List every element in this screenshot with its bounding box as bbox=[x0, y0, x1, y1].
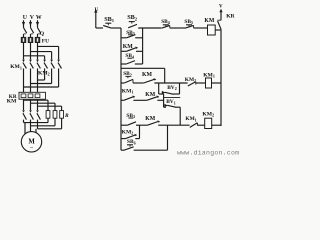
wire parallel-branch right vertical bbox=[142, 28, 144, 64]
svg-text:KM: KM bbox=[145, 92, 156, 98]
thermal relay contact KR bbox=[217, 14, 235, 30]
wire KM2 pole2 crossover bbox=[31, 68, 52, 83]
contactor KM main contacts bbox=[7, 99, 41, 120]
contact KM1 interlock NC bbox=[185, 116, 204, 127]
svg-text:BV1: BV1 bbox=[166, 99, 176, 105]
wire phase1 below KR bbox=[23, 99, 25, 110]
coil KM bbox=[204, 18, 221, 35]
svg-text:W: W bbox=[36, 15, 42, 21]
wire motor feeds bbox=[25, 123, 36, 135]
svg-text:SB4: SB4 bbox=[161, 19, 170, 25]
wire merge phase2 bbox=[31, 118, 56, 126]
pushbutton SB4 bbox=[161, 19, 185, 28]
svg-text:KM: KM bbox=[145, 116, 156, 122]
svg-text:Q: Q bbox=[40, 31, 45, 37]
svg-text:KM1: KM1 bbox=[10, 64, 22, 70]
contact KM2 interlock NC bbox=[185, 77, 206, 86]
pushbutton SB2 bbox=[127, 14, 138, 28]
contact KM NO rung C bbox=[145, 116, 189, 125]
wire tap W to KM2 pole3 bbox=[38, 46, 59, 59]
motor M bbox=[21, 132, 41, 152]
pushbutton SB2 NC contact bbox=[121, 71, 133, 83]
wire phase verticals to KM1 bbox=[24, 43, 38, 60]
coil KM2 bbox=[202, 112, 221, 129]
svg-text:SB5: SB5 bbox=[184, 19, 193, 25]
svg-text:FU: FU bbox=[42, 38, 49, 44]
wire phase2 below KR bbox=[30, 99, 32, 110]
supply terminal U bbox=[22, 15, 28, 27]
svg-text:KM: KM bbox=[7, 99, 17, 105]
supply terminal W bbox=[36, 15, 42, 27]
contact KM2 latch bbox=[121, 125, 140, 138]
fuse FU bbox=[21, 34, 49, 45]
supply terminal V bbox=[29, 15, 35, 27]
wire tap to resistor R3 bbox=[38, 106, 62, 110]
svg-text:BV2: BV2 bbox=[167, 85, 177, 91]
wire merge phase3 bbox=[38, 118, 62, 129]
wire tap to resistor R2 bbox=[31, 103, 56, 110]
contactor KM2 main contacts bbox=[38, 60, 62, 77]
svg-text:KM1: KM1 bbox=[122, 88, 134, 94]
svg-text:KM1: KM1 bbox=[185, 116, 196, 122]
svg-text:KM: KM bbox=[204, 18, 215, 24]
svg-text:KM2: KM2 bbox=[202, 112, 214, 118]
wire right bus bbox=[220, 29, 222, 126]
wire KM2 pole1 crossover bbox=[38, 68, 45, 80]
svg-text:~: ~ bbox=[30, 145, 33, 151]
coil KM1 bbox=[203, 73, 221, 88]
wire rail A bbox=[138, 27, 161, 29]
contactor KM1 main contacts bbox=[10, 60, 40, 71]
wire tap U to KM2 pole1 bbox=[24, 56, 45, 60]
resistor R bank bbox=[46, 111, 69, 119]
contact KM latch bbox=[121, 44, 143, 51]
pushbutton SB3 second contact bbox=[121, 113, 147, 125]
svg-text:KM: KM bbox=[142, 72, 153, 78]
wire left bus bbox=[120, 28, 122, 150]
pushbutton SB1 bbox=[103, 16, 121, 28]
contact BV2 speed relay bbox=[159, 83, 180, 94]
pushbutton SB4 second contact bbox=[121, 53, 143, 64]
svg-text:R: R bbox=[64, 113, 69, 119]
thermal relay KR heaters bbox=[9, 92, 46, 100]
svg-text:KR: KR bbox=[226, 14, 235, 20]
wire tap V to KM2 pole2 bbox=[31, 52, 52, 60]
pushbutton SB6 bbox=[121, 125, 168, 150]
control tap U bbox=[94, 7, 103, 28]
wire tap to resistor R1 bbox=[24, 100, 49, 110]
switch Q bbox=[24, 28, 45, 37]
svg-text:www.diangon.com: www.diangon.com bbox=[177, 149, 239, 156]
pushbutton SB5 bbox=[184, 19, 207, 28]
svg-text:KM2: KM2 bbox=[38, 70, 50, 76]
wire phase3 below KR bbox=[37, 99, 39, 110]
contact KM NO rung B bbox=[133, 72, 188, 83]
wire KM2 pole3 crossover bbox=[24, 68, 59, 87]
contact KM NO latch row bbox=[145, 92, 163, 100]
contact KM1 latch bbox=[121, 88, 147, 100]
wire KM1 outputs bbox=[24, 68, 38, 92]
svg-text:KM2: KM2 bbox=[122, 130, 134, 136]
pushbutton SB3 bbox=[121, 30, 143, 38]
control tap V bbox=[219, 5, 223, 20]
wire merge phase1 bbox=[24, 118, 49, 122]
wire elbow to rung B bbox=[121, 68, 165, 83]
contact BV1 speed relay bbox=[164, 94, 181, 125]
